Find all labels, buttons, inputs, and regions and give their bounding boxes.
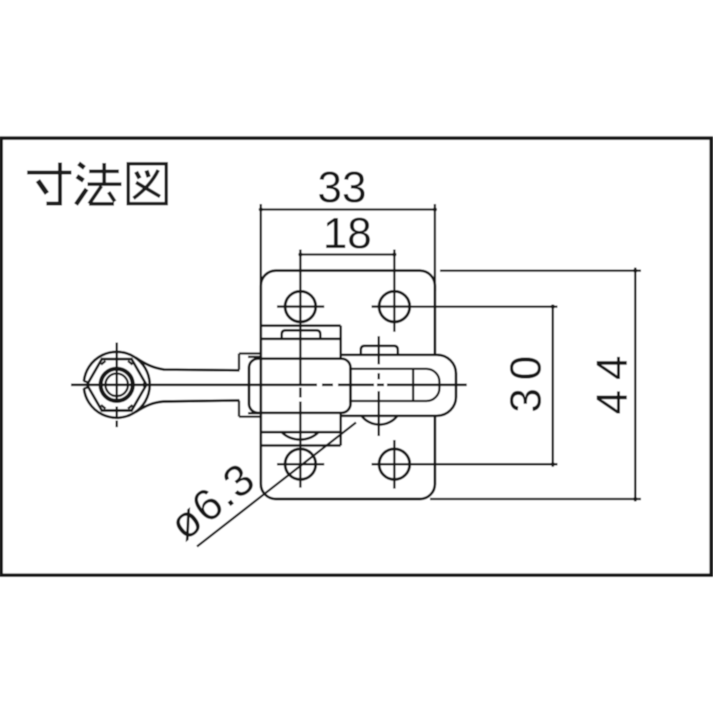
centerline right pivot column xyxy=(378,336,380,436)
right bracket lower arc xyxy=(362,416,398,425)
knob inner circle xyxy=(105,374,128,397)
right bracket tab xyxy=(361,346,398,354)
crosshair bottom-right hole xyxy=(372,463,408,465)
dimension line 33 xyxy=(261,204,435,291)
border frame xyxy=(1,138,711,575)
vertical crosshair bottom-right hole xyxy=(393,440,395,489)
knob vertical centerline xyxy=(116,343,118,428)
hole bottom-left xyxy=(285,449,316,480)
handle arm bottom edge xyxy=(136,400,240,412)
dimension line 44 xyxy=(430,268,641,502)
clamp bar outer xyxy=(342,355,456,416)
pivot block xyxy=(249,359,351,413)
title glyph ZU (図) xyxy=(128,164,166,204)
svg-text:33: 33 xyxy=(318,163,367,212)
hole top-right xyxy=(379,291,410,322)
crosshair top-right hole xyxy=(372,305,408,307)
svg-text:30: 30 xyxy=(502,348,551,413)
washer at pivot left xyxy=(239,354,262,417)
leader line dia 6.3 xyxy=(197,423,356,547)
hole top-left xyxy=(285,291,316,322)
clamp bar slot xyxy=(349,369,439,401)
knob outer circle xyxy=(84,352,150,418)
dimension line 18 xyxy=(300,250,394,332)
svg-text:18: 18 xyxy=(323,209,372,258)
centerline left column xyxy=(299,250,301,488)
knob notch xyxy=(84,381,90,389)
knob hexagon xyxy=(87,359,146,410)
svg-text:44: 44 xyxy=(588,346,637,415)
title glyph SUN (寸) xyxy=(27,163,71,204)
body plate xyxy=(261,271,435,499)
dimension line 30 xyxy=(408,305,558,467)
handle arm top edge xyxy=(136,358,240,371)
upper bracket xyxy=(261,326,341,359)
lower bracket xyxy=(261,413,341,446)
crosshair bottom-left hole xyxy=(277,463,324,465)
title glyph HOU (法) xyxy=(76,163,122,205)
clamp bar divider xyxy=(412,369,414,401)
knob thick circle xyxy=(101,369,133,401)
hole bottom-right xyxy=(379,449,410,480)
crosshair top-left hole xyxy=(277,305,324,307)
main horizontal centerline xyxy=(71,384,467,387)
hexagon chamfer arcs xyxy=(101,361,147,409)
